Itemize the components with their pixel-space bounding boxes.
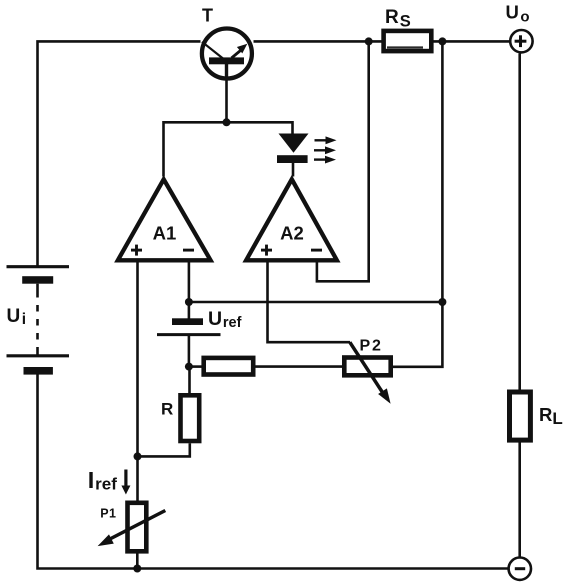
wire: bottom rail (U_i minus to output minus) — [38, 375, 508, 569]
LED D1 — [277, 134, 309, 164]
wire: Uref top lead — [188, 302, 191, 319]
wire: node horizontal A1 out to A2 out — [164, 122, 293, 176]
wire: P2 right up to Rs right leg — [393, 41, 442, 366]
wire: feedback line A1 minus to Rs right leg — [189, 301, 443, 304]
A2 minus input mark — [311, 249, 322, 252]
wire: A1 plus input down to P1 — [136, 261, 139, 502]
svg-text:T: T — [202, 6, 213, 26]
junction node: A1 plus / R bottom — [134, 452, 142, 460]
wire: A2 plus input to P2 wiper — [268, 261, 351, 343]
op-amp A2 — [246, 179, 337, 260]
potentiometer P2 — [344, 342, 390, 404]
wire: U_o plus down to R_L — [518, 54, 521, 390]
wire: A1 minus input down to node — [188, 261, 191, 303]
LED light arrows — [314, 136, 337, 163]
A2 plus input mark — [261, 249, 272, 252]
junction node: R_S right — [438, 37, 446, 45]
junction node: transistor base / amplifier outputs — [223, 118, 231, 126]
wire: R_S to U_o plus terminal — [434, 40, 510, 43]
svg-text:R: R — [161, 400, 173, 419]
wire: R_L down to minus terminal — [518, 442, 521, 556]
A1 minus input mark — [183, 249, 194, 252]
wire: A2 minus input jog up to Rs left leg — [317, 41, 369, 281]
wire: horizontal resistor to P2 left — [256, 365, 343, 368]
battery U_ref — [157, 318, 221, 334]
resistor R_L — [510, 392, 531, 440]
resistor R — [181, 395, 200, 441]
svg-text:P2: P2 — [360, 337, 383, 354]
wire: Uref bottom lead to node — [188, 335, 191, 367]
svg-text:A2: A2 — [280, 222, 304, 243]
junction node: feedback / sense line — [438, 298, 446, 306]
wire: top rail left (U_i plus to transistor) — [38, 41, 201, 266]
junction node: R_S left — [365, 37, 373, 45]
current arrow I_ref — [121, 470, 130, 495]
svg-text:P1: P1 — [100, 507, 116, 521]
resistor R_S — [384, 31, 432, 51]
wire: P1 bottom to rail — [136, 553, 139, 569]
resistor (series, unnamed) — [204, 358, 254, 375]
A1 plus input mark — [131, 249, 142, 252]
junction node: U_ref minus / R / series resistor — [185, 363, 193, 371]
battery U_i upper cell — [7, 267, 70, 284]
battery U_i lower cell — [7, 356, 70, 375]
potentiometer P1 — [98, 503, 166, 552]
junction node: A1 minus / U_ref — [185, 298, 193, 306]
wire: transistor emitter to R_S — [254, 40, 382, 43]
wire: LED cathode to A2 apex — [292, 162, 295, 177]
terminal U_o minus — [509, 558, 531, 580]
junction node: P1 to bottom rail — [133, 565, 141, 573]
wire: dashed link between cells — [36, 284, 39, 356]
wire: node down to R top — [188, 367, 191, 394]
transistor T — [202, 29, 252, 80]
wire: R bottom to A1 plus line — [138, 443, 190, 456]
op-amp A1 — [118, 179, 211, 260]
terminal U_o plus — [510, 30, 532, 52]
svg-text:A1: A1 — [153, 222, 177, 243]
wire: transistor base down to node — [225, 63, 228, 122]
wire: node to horizontal resistor — [189, 365, 202, 368]
